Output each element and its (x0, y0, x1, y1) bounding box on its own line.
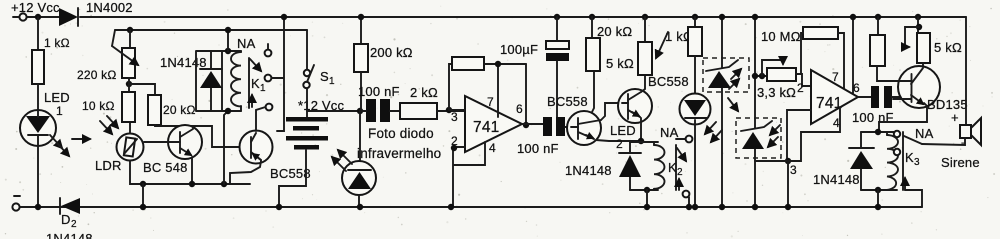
svg-text:BC558: BC558 (547, 94, 588, 109)
svg-text:3: 3 (914, 157, 920, 168)
svg-text:1N4148: 1N4148 (46, 231, 93, 239)
svg-text:K: K (668, 160, 677, 175)
diode 1N4148 relay K3 clamp (813, 132, 874, 190)
resistor 10 MΩ (761, 27, 844, 89)
resistor 20 kΩ (148, 95, 196, 125)
svg-text:100 nF: 100 nF (517, 141, 559, 156)
optocoupler box 1 (703, 14, 749, 210)
wire (130, 122, 250, 184)
relay K1 contacts NA (237, 36, 272, 110)
svg-text:1N4148: 1N4148 (813, 172, 860, 187)
svg-text:1N4148: 1N4148 (565, 163, 612, 178)
battery 12V (276, 88, 345, 210)
svg-text:220 kΩ: 220 kΩ (77, 68, 117, 82)
node junction (35, 204, 41, 210)
svg-text:6: 6 (516, 102, 523, 116)
svg-text:4: 4 (833, 116, 840, 130)
transistor Q4 BC558 (618, 74, 689, 144)
wire rail to op-amp2 pin7 (852, 17, 854, 93)
svg-text:NA: NA (237, 36, 256, 51)
svg-text:D: D (61, 212, 71, 227)
svg-text:7: 7 (487, 95, 494, 109)
capacitor 100 nF 2 (852, 86, 902, 125)
svg-text:K: K (905, 150, 914, 165)
wire collector line (155, 125, 240, 147)
wire output (522, 123, 543, 125)
relay K1 coil (231, 51, 241, 111)
wire output op-amp2 (858, 96, 871, 98)
diode D2 1N4148 (46, 198, 93, 240)
node pin3 junction (446, 107, 452, 113)
svg-text:5 kΩ: 5 kΩ (934, 40, 962, 55)
wire coil bottom to emitter line (224, 111, 228, 184)
svg-text:1: 1 (56, 104, 63, 118)
svg-text:2: 2 (71, 219, 77, 230)
svg-text:BC558: BC558 (270, 166, 311, 181)
optocoupler box 2 (736, 14, 781, 210)
svg-text:+12 Vcc: +12 Vcc (11, 0, 60, 15)
svg-text:20 kΩ: 20 kΩ (163, 103, 196, 117)
wire pin2 loop (453, 142, 485, 207)
text LED 2 (610, 123, 636, 151)
svg-text:BC558: BC558 (648, 74, 689, 89)
svg-text:741: 741 (816, 95, 842, 112)
resistor 10 kΩ (82, 92, 135, 122)
svg-text:3,3 kΩ: 3,3 kΩ (757, 85, 796, 100)
svg-text:BC 548: BC 548 (143, 160, 188, 175)
svg-text:3: 3 (790, 163, 797, 177)
trimpot 220 kΩ (77, 30, 138, 82)
terminal ground left (12, 203, 19, 210)
wire rail right drop (965, 17, 967, 125)
node junction (126, 81, 132, 87)
svg-text:LED: LED (610, 123, 636, 138)
wire bottom rail (20, 206, 922, 208)
svg-text:2 kΩ: 2 kΩ (410, 85, 438, 100)
wire (37, 146, 39, 207)
node output junction (523, 122, 529, 128)
wire battery node to signal (307, 110, 360, 112)
svg-text:NA: NA (915, 126, 934, 141)
wire pin4 op-amp2 (788, 107, 840, 161)
svg-text:2: 2 (616, 137, 623, 151)
svg-text:1: 1 (260, 83, 266, 94)
speaker sirene (922, 110, 981, 170)
svg-text:1N4148: 1N4148 (160, 55, 207, 70)
resistor 200 kΩ (354, 14, 413, 111)
transistor Q3 BC558 (547, 71, 641, 145)
svg-text:BD135: BD135 (927, 97, 968, 112)
svg-text:100µF: 100µF (500, 42, 538, 57)
svg-text:741: 741 (473, 119, 499, 136)
svg-text:7: 7 (832, 70, 839, 84)
capacitor 100µF (500, 14, 569, 117)
terminal +12 Vcc (11, 0, 60, 21)
svg-text:+: + (951, 110, 959, 125)
light arrows from LED1 (50, 135, 69, 156)
wire rail31 (115, 29, 307, 31)
transistor Q2 BC558 (230, 107, 311, 184)
LED emitter (680, 94, 711, 211)
switch S1 (303, 30, 335, 88)
svg-text:Foto diodo: Foto diodo (368, 126, 434, 141)
LED LED1 (20, 90, 70, 146)
resistor above LED (688, 14, 702, 94)
op-amp U2 741 (790, 70, 860, 177)
relay K2 coil (630, 142, 665, 190)
transistor Q5 BD135 (877, 66, 968, 132)
svg-text:3: 3 (451, 110, 458, 124)
svg-text:infravermelho: infravermelho (357, 146, 441, 161)
feedback resistor op-amp1 (449, 57, 526, 124)
resistor 20 kΩ / 5 kΩ column (586, 14, 634, 71)
svg-text:100 nF: 100 nF (358, 84, 400, 99)
op-amp U1 741 (451, 95, 523, 155)
svg-text:20 kΩ: 20 kΩ (597, 24, 632, 39)
diode 1N4148 relay K2 clamp (565, 142, 641, 190)
svg-text:S: S (320, 69, 329, 84)
light arrows into LDR (100, 116, 118, 134)
transistor Q1 BC548 (143, 125, 202, 184)
svg-text:10 kΩ: 10 kΩ (82, 99, 115, 113)
wire (37, 17, 39, 50)
svg-text:2: 2 (677, 167, 683, 178)
arrow between optos (728, 98, 738, 111)
wire pin3 op-amp2 (787, 110, 811, 161)
svg-text:5 kΩ: 5 kΩ (606, 56, 634, 71)
diode 1N4148 relay K1 clamp (160, 51, 241, 111)
svg-text:6: 6 (853, 81, 860, 95)
wire (37, 84, 39, 110)
svg-text:4: 4 (489, 141, 496, 155)
svg-text:NA: NA (660, 125, 679, 140)
wire (142, 184, 144, 207)
svg-text:1N4002: 1N4002 (86, 0, 133, 15)
light arrows photodiode (332, 150, 352, 171)
capacitor 100 nF output (517, 117, 571, 156)
node junctions on emitter line (140, 181, 146, 187)
wire (129, 84, 155, 95)
node junction coil top (225, 48, 231, 54)
svg-text:10 MΩ: 10 MΩ (761, 29, 801, 44)
arrow horizontal (72, 138, 90, 140)
trimpot 5 kΩ (903, 14, 962, 67)
svg-text:K: K (251, 76, 260, 91)
photodiode foto diodo infravermelho (342, 111, 441, 210)
relay K3 coil (861, 129, 898, 210)
svg-text:1: 1 (329, 76, 335, 87)
LDR (95, 134, 144, 174)
svg-text:200 kΩ: 200 kΩ (370, 45, 413, 60)
wire top rail (27, 16, 966, 18)
wire (227, 30, 229, 51)
wire pin3 (449, 109, 465, 111)
svg-text:1 kΩ: 1 kΩ (44, 36, 70, 50)
svg-text:Sirene: Sirene (941, 155, 980, 170)
svg-text:2: 2 (797, 81, 804, 95)
node junction (127, 27, 133, 33)
node A junction (35, 14, 41, 20)
resistor 1 kΩ (32, 36, 70, 84)
resistor 2 kΩ (400, 85, 465, 119)
resistor base pullup (870, 14, 885, 66)
svg-text:LED: LED (44, 90, 70, 105)
capacitor 100 nF (358, 84, 400, 122)
relay K2 contacts NA (660, 125, 692, 210)
light arrows from LED (705, 122, 722, 142)
trimpot 3,3 kΩ (752, 60, 811, 100)
wire K1 middle contact to rail (272, 17, 285, 131)
diode D1 1N4002 (59, 0, 133, 26)
trimpot 1 kΩ (638, 14, 693, 75)
relay K3 contacts NA (894, 126, 934, 207)
svg-text:LDR: LDR (95, 158, 122, 173)
node junction K2 bottom (644, 187, 650, 193)
